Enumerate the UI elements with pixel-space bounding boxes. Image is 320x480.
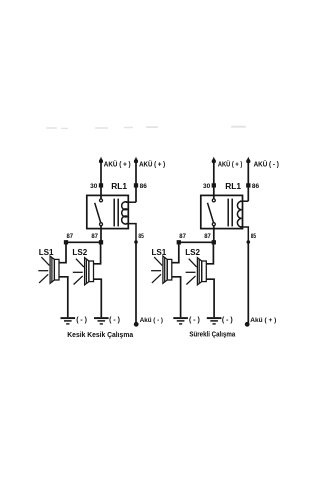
svg-text:87: 87 (179, 233, 186, 240)
battery feed arrow AKÜ(+) (left) (99, 157, 103, 163)
relay coil core (right) (227, 199, 229, 227)
relay coil winding (right) (237, 201, 241, 227)
ground LS2 (left) (94, 317, 109, 319)
svg-text:Akü ( + ): Akü ( + ) (250, 317, 276, 324)
horn LS1 (left) (38, 256, 59, 283)
svg-text:( - ): ( - ) (76, 317, 87, 324)
svg-text:86: 86 (140, 183, 148, 190)
wire LS1 to ground (left) (59, 277, 68, 318)
svg-text:AKÜ ( - ): AKÜ ( - ) (254, 159, 279, 168)
svg-text:( - ): ( - ) (189, 317, 200, 324)
svg-text:AKÜ ( + ): AKÜ ( + ) (139, 159, 165, 168)
battery feed arrow 2 (right) (246, 157, 250, 163)
relay switch contact (right) (212, 199, 215, 226)
svg-text:Kesik Kesik Çalışma: Kesik Kesik Çalışma (67, 330, 133, 339)
svg-text:( - ): ( - ) (109, 317, 120, 324)
wire pin 85 to battery (left) (135, 242, 137, 323)
svg-text:87: 87 (91, 233, 98, 240)
wire relay pin 87 down (right) (213, 226, 215, 243)
svg-text:LS1: LS1 (152, 248, 167, 257)
node 85 (right) (247, 240, 251, 244)
svg-text:AKÜ ( + ): AKÜ ( + ) (218, 159, 242, 168)
svg-text:30: 30 (203, 183, 211, 190)
wire 87 to LS2 (left) (94, 242, 101, 263)
wire battery to relay pin 86 (left) (135, 162, 137, 203)
relay RL1 box (right) (201, 195, 243, 228)
relay coil winding (left) (122, 202, 128, 224)
wire coil top to pin 86 (left) (126, 201, 136, 203)
svg-text:LS2: LS2 (185, 248, 200, 257)
node 87 left (right) (177, 240, 181, 244)
svg-text:AKÜ ( + ): AKÜ ( + ) (104, 159, 131, 168)
scan artifact smudges (46, 126, 246, 129)
node 86 (left) (134, 183, 138, 187)
node 87 right (left) (99, 240, 103, 244)
wire relay pin 87 down (left) (100, 226, 102, 243)
horn LS1 (right) (151, 256, 172, 283)
battery feed arrow AKÜ(+) (right) (212, 157, 216, 163)
node 86 (right) (246, 183, 250, 187)
wire coil top to pin 86 (right) (240, 200, 248, 202)
svg-text:85: 85 (251, 233, 257, 240)
ground LS1 (right) (173, 317, 188, 319)
svg-text:87: 87 (67, 233, 74, 240)
ground LS2 (right) (207, 317, 222, 319)
svg-text:LS2: LS2 (72, 248, 87, 257)
relay RL1 box (left) (87, 195, 129, 228)
svg-text:30: 30 (90, 183, 98, 190)
battery feed arrow 2 (left) (134, 157, 138, 163)
wire 87 bus (left) (66, 241, 101, 243)
wire pin 85 to battery (right) (247, 242, 249, 323)
node 87 right (right) (212, 240, 216, 244)
wire coil bottom to pin 85 (left) (126, 224, 136, 242)
node 87 left (left) (64, 240, 68, 244)
svg-text:RL1: RL1 (111, 181, 127, 191)
svg-text:Akü ( - ): Akü ( - ) (140, 317, 163, 324)
wire coil bottom to pin 85 (right) (240, 227, 248, 242)
battery terminal dot (left) (134, 322, 139, 327)
node 30 (right) (212, 183, 216, 187)
horn LS2 (right) (186, 258, 207, 285)
svg-text:RL1: RL1 (225, 181, 241, 191)
svg-text:LS1: LS1 (39, 248, 54, 257)
wire 87 to LS1 (right) (172, 242, 179, 262)
wire 87 to LS2 (right) (206, 242, 213, 263)
wire LS1 to ground (right) (172, 277, 181, 318)
node 85 (left) (134, 240, 138, 244)
relay coil core (left) (113, 199, 115, 227)
svg-text:( - ): ( - ) (222, 317, 233, 324)
wire battery to relay pin 30 (left) (100, 162, 102, 199)
horn LS2 (left) (73, 258, 94, 285)
wire 87 bus (right) (179, 241, 214, 243)
node 30 (left) (99, 183, 103, 187)
relay switch contact (left) (100, 199, 103, 226)
wire battery to relay pin 30 (right) (213, 162, 215, 199)
svg-text:Sürekli Çalışma: Sürekli Çalışma (189, 330, 236, 339)
wire battery to relay pin 86 (right) (247, 162, 249, 202)
svg-text:86: 86 (252, 183, 260, 190)
wire LS2 to ground (right) (206, 279, 214, 317)
battery terminal dot (right) (245, 322, 250, 327)
ground LS1 (left) (61, 317, 76, 319)
wire LS2 to ground (left) (94, 279, 102, 317)
svg-text:85: 85 (138, 233, 144, 240)
wire 87 to LS1 (left) (59, 242, 66, 262)
svg-text:87: 87 (204, 233, 211, 240)
